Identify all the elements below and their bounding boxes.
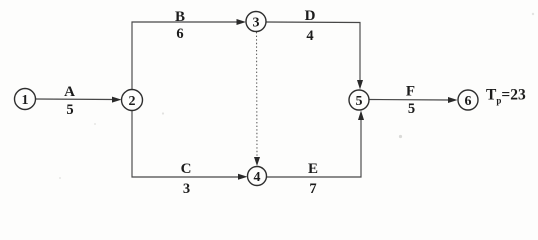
wire from node4 right and up (edge E): [267, 119, 361, 177]
svg-text:3: 3: [183, 181, 190, 197]
svg-text:4: 4: [254, 170, 261, 185]
svg-text:4: 4: [306, 28, 313, 44]
arrowhead into node 4: [238, 174, 248, 180]
svg-text:1: 1: [22, 93, 29, 108]
label A: [64, 84, 75, 100]
node 4: [248, 167, 267, 186]
value 4 (D): [306, 28, 313, 44]
value 7 (E): [309, 181, 316, 197]
label B: [175, 9, 185, 25]
label E: [308, 161, 318, 177]
arrowhead into node 4 (dummy): [254, 157, 260, 166]
arrowhead into node 2: [112, 97, 122, 103]
svg-text:2: 2: [129, 94, 136, 109]
svg-text:E: E: [308, 161, 318, 177]
label C: [181, 161, 192, 177]
svg-text:A: A: [64, 84, 75, 100]
label Tp=23: [486, 87, 526, 106]
wire A: node1 to node2: [36, 98, 115, 101]
svg-text:6: 6: [176, 26, 183, 42]
svg-text:5: 5: [66, 102, 73, 118]
node 1: [15, 89, 36, 110]
svg-text:B: B: [175, 9, 185, 25]
node 6: [458, 90, 478, 110]
svg-text:D: D: [305, 8, 316, 24]
svg-text:3: 3: [253, 15, 260, 30]
value 5 (A): [66, 102, 73, 118]
value 3 (C): [183, 181, 190, 197]
wire F: node5 to node6: [369, 99, 450, 102]
svg-text:C: C: [181, 161, 192, 177]
wire from node2 down and right (edge C): [132, 111, 240, 177]
wire from node3 right and down (edge D): [266, 22, 360, 81]
arrowhead into node 6: [448, 97, 458, 103]
arrowhead into node 5 bottom: [358, 111, 364, 121]
arrowhead into node 5 top: [357, 80, 363, 90]
label D: [305, 8, 316, 24]
wire from node2 up and right (edge B): [132, 22, 238, 89]
svg-text:F: F: [406, 84, 415, 100]
svg-text:7: 7: [309, 181, 316, 197]
svg-text:5: 5: [356, 94, 363, 109]
svg-text:5: 5: [408, 101, 415, 117]
value 5 (F): [408, 101, 415, 117]
svg-text:Tp=23: Tp=23: [486, 87, 526, 106]
node 2: [122, 90, 143, 111]
svg-text:6: 6: [465, 94, 472, 109]
node 5: [349, 90, 369, 110]
arrowhead into node 3: [237, 19, 247, 25]
node 3: [246, 12, 266, 32]
value 6 (B): [176, 26, 183, 42]
dummy activity: dashed wire node3 to node4: [256, 32, 259, 158]
label F: [406, 84, 415, 100]
